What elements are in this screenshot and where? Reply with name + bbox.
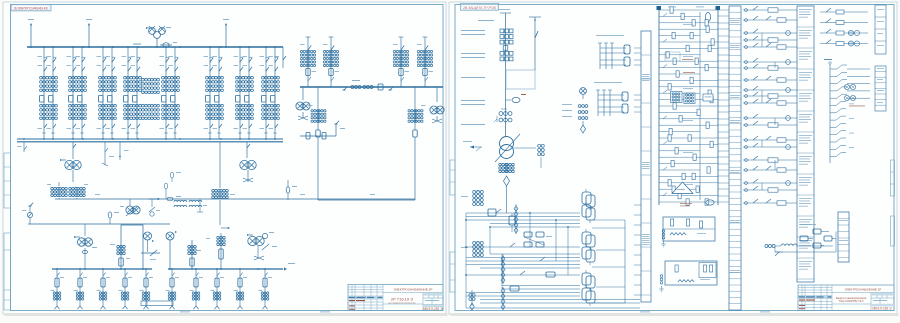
transformer riser bay T1 on bus 3	[307, 37, 309, 87]
right edge box RB2	[875, 66, 886, 111]
ladder rung 31	[659, 201, 718, 203]
contact rung K20	[743, 202, 797, 204]
ladder rung 12	[659, 79, 718, 81]
VT chain with star point	[580, 88, 587, 95]
sheet 2 page	[449, 2, 897, 314]
transformer riser bay T4 on bus 3	[424, 37, 426, 87]
ladder rung 17	[659, 111, 700, 113]
AT jumper ovals above W1	[165, 189, 167, 199]
transformer loop P2	[170, 240, 192, 269]
riser to line L3 with up arrow	[225, 25, 227, 47]
ladder relay grid block KA1	[671, 92, 683, 103]
signal cascade rail	[829, 64, 831, 163]
DC ladder left rail	[658, 8, 660, 205]
transformer loop P1	[121, 225, 143, 269]
bus 2 junction dots	[23, 138, 25, 140]
generator cluster G3 below bus 3 left	[302, 87, 304, 100]
test plug TB3	[582, 232, 591, 244]
bus1 end drop feeder	[282, 47, 284, 68]
generator cluster G4 below bus 3 right	[436, 87, 438, 102]
feeder bay Q5 on bus 1	[165, 47, 167, 139]
ladder rung 20	[659, 131, 700, 133]
signal device cluster SC1	[781, 244, 797, 246]
test plug TB1	[582, 192, 591, 204]
ladder rung 21	[659, 137, 718, 139]
ladder rung 10	[659, 67, 718, 69]
generator cluster G1 below bus 2	[72, 142, 74, 159]
BK1 CT chain and ground	[662, 230, 665, 233]
earthing switch on W3	[27, 212, 32, 217]
ladder rung 7	[659, 47, 718, 49]
terminal strip XT5	[838, 212, 849, 262]
signal rung S4	[820, 43, 868, 45]
windings below G2	[212, 189, 215, 192]
outgoing feeder F3 on bus 4	[102, 269, 104, 306]
annotation text column	[461, 29, 485, 32]
ladder rung 1	[659, 9, 718, 11]
ladder rung 16	[659, 105, 718, 107]
BK2 CT chain and ground	[660, 275, 663, 278]
ladder rung 6	[659, 41, 718, 43]
sheet 1 top-left stamp	[11, 4, 51, 11]
sheet 1 drawing frame	[11, 5, 444, 311]
contact rung K9	[743, 89, 797, 91]
riser to line L2 with up arrow	[88, 25, 90, 47]
ladder mid rail	[699, 12, 701, 200]
long tie loop wire	[318, 199, 415, 201]
triangle red note	[680, 202, 692, 205]
test plug TB4	[582, 247, 591, 259]
contact rung K18	[743, 182, 797, 184]
CT secondary coil block A	[473, 191, 476, 194]
aux drop with switch below bus 2	[104, 142, 106, 165]
svg-text:ЭЛЕКТРОСНАБЖЕНИЕ 2Р: ЭЛЕКТРОСНАБЖЕНИЕ 2Р	[394, 288, 433, 292]
ladder rung 5	[659, 35, 700, 37]
sheet 1 bottom frame strip marks	[180, 311, 190, 314]
auxiliary generator GB2	[144, 232, 152, 240]
ladder relay grid block KA2	[684, 93, 695, 104]
contact rung K13	[743, 124, 797, 126]
plug column collector	[624, 220, 626, 303]
svg-text:2В ЗАЩИТА ТР-РОВ: 2В ЗАЩИТА ТР-РОВ	[463, 6, 496, 10]
CT block group TA1	[500, 29, 504, 33]
HV supply line	[505, 13, 507, 136]
ladder rung 11	[659, 73, 700, 75]
ladder rung 2	[659, 15, 700, 17]
mesh vertical collectors	[466, 213, 568, 308]
bus 3 (35kV)	[300, 86, 443, 88]
ladder rung 9	[659, 60, 718, 62]
svg-text:2Р 716.19 Э: 2Р 716.19 Э	[391, 296, 413, 301]
breaker element on W3	[109, 218, 111, 224]
tie reactor on bus 3	[351, 86, 354, 89]
coil oval right of triangle	[706, 200, 714, 205]
aux drop 2 below bus 2	[119, 142, 121, 160]
ladder relay label box	[703, 94, 713, 101]
synchronous condenser cluster	[248, 236, 257, 245]
test plug TB6	[582, 288, 591, 300]
feeder bay Q2 on bus 1	[72, 47, 74, 139]
ladder rung 30	[659, 195, 718, 197]
outgoing feeder F7 on bus 4	[195, 269, 197, 306]
fuse diamond chain FD1	[515, 204, 517, 234]
contact rung K2	[743, 19, 797, 21]
generator pair GB1	[84, 224, 86, 236]
ladder rung 23	[659, 150, 700, 152]
mid wire stub down from W1	[199, 199, 201, 212]
relay cluster RC1	[524, 232, 532, 237]
transformer riser bay T2 on bus 3	[330, 37, 332, 87]
fuse on tie loop	[286, 187, 290, 193]
feeder arrow left of T1	[470, 146, 482, 148]
bus 1 junction dots	[30, 46, 32, 48]
ladder rung 22	[659, 143, 718, 145]
power transformer T1	[500, 137, 514, 151]
contact rung K4	[743, 39, 797, 41]
mesh junction dots	[465, 219, 467, 221]
LV fuse FU1	[504, 176, 510, 186]
W1 wire labels	[60, 193, 65, 196]
contact rung K6	[743, 61, 797, 63]
ladder rung 15	[659, 99, 718, 101]
contact rung K5	[743, 46, 797, 48]
bus 4 junction dots	[56, 268, 58, 270]
cascade lamp pairs	[844, 84, 849, 89]
VT chain labels	[562, 103, 572, 106]
ladder rung 8	[659, 54, 700, 56]
contact rung K8	[743, 79, 797, 81]
CT secondary chain C	[471, 290, 473, 306]
right edge box RB1	[875, 5, 886, 54]
svg-text:для завершения выполнения: для завершения выполнения	[388, 302, 415, 304]
outgoing feeder F6 on bus 4	[171, 269, 173, 306]
ladder rung 28	[659, 182, 718, 184]
ladder rung 14	[659, 92, 700, 94]
bus 1 label 10kV	[133, 44, 141, 45]
boxed relay circuit BK1	[663, 217, 715, 241]
sheet 2 title block	[798, 285, 894, 311]
svg-text:ЭЛЕКТРОСНАБЖЕНИЕ 2Р: ЭЛЕКТРОСНАБЖЕНИЕ 2Р	[845, 288, 881, 292]
outgoing feeder F5 on bus 4	[145, 269, 147, 306]
arrow tap on wire W1	[148, 198, 160, 200]
bus 4 right segment	[168, 268, 283, 270]
tertiary winding tap	[514, 147, 537, 149]
cascade branch contacts	[830, 65, 870, 157]
LV winding stack under T1	[499, 163, 502, 166]
ladder rung 4	[659, 28, 718, 30]
XT1 wire stubs	[634, 48, 641, 295]
svg-text:МКЭ.9-292 Э: МКЭ.9-292 Э	[423, 307, 443, 311]
ladder rung 13	[659, 86, 718, 88]
sheet 2 bottom frame marks	[640, 311, 650, 314]
coil windings row W2	[174, 200, 187, 202]
outgoing feeder F1 on bus 4	[56, 269, 58, 306]
terminal strip XT2	[729, 6, 741, 310]
ladder terminal dots	[657, 6, 662, 10]
bus 2 (double busbar)	[17, 138, 283, 140]
instrument group PA1	[596, 34, 624, 37]
signal rung S2	[820, 22, 868, 24]
fuse diamond chain FD2	[502, 254, 504, 284]
contact rung K3	[743, 32, 797, 34]
contact rung K17	[743, 169, 797, 171]
sheet 1 title block	[348, 285, 443, 311]
fuse diamond chain FD3	[502, 287, 504, 309]
contact rung K10	[743, 95, 797, 97]
svg-text:ТЭЦ 4-2000/ТВ2 ТЗ-3: ТЭЦ 4-2000/ТВ2 ТЗ-3	[839, 300, 864, 303]
bus 1 (10kV section)	[27, 46, 283, 48]
signal rung S1	[820, 11, 868, 13]
test plug TB5	[582, 273, 591, 285]
instrument group PA2	[594, 81, 622, 84]
ladder K vertical jogs	[762, 33, 775, 190]
mesh horizontal wires	[466, 213, 640, 308]
terminal strip XT3 (descriptions)	[797, 6, 814, 282]
bottom label box	[141, 301, 173, 306]
ladder rung 26	[659, 169, 700, 171]
outgoing feeder F8 on bus 4	[216, 269, 218, 306]
XT2 wire stubs	[718, 10, 729, 202]
reserve riser R1	[220, 233, 222, 269]
generator cluster G2 below bus 2	[246, 142, 248, 158]
bus 4 left segment	[52, 268, 152, 270]
ladder rung 25	[659, 163, 718, 165]
ladder rung 19	[659, 124, 718, 126]
CT block group TA2	[500, 51, 504, 55]
outgoing feeder F10 on bus 4	[264, 269, 266, 306]
right edge form boxes sheet 2	[891, 160, 895, 246]
test plug TB2	[582, 205, 591, 217]
bus section jumper right of bus 2	[300, 135, 336, 137]
extra reactor windings middle bay	[142, 78, 145, 81]
ladder rung 18	[659, 118, 718, 120]
interposing square	[503, 46, 508, 51]
contact rung K11	[743, 102, 797, 104]
aux contacts on mesh	[496, 209, 545, 275]
sheet 1 page	[3, 2, 446, 314]
lower cross wire W3	[28, 223, 170, 225]
ladder rung 27	[659, 175, 718, 177]
feeder bay Q1 on bus 1	[43, 47, 45, 139]
cascade red note	[849, 105, 865, 108]
feeder bay Q3 on bus 1	[102, 47, 104, 139]
contact rung K12	[743, 117, 797, 119]
feeder bay Q6 on bus 1	[209, 47, 211, 139]
breaker coil YAT	[509, 216, 515, 225]
CT winding group TA3	[499, 112, 503, 116]
ladder rung 24	[659, 156, 718, 158]
small relay box on mesh	[488, 209, 496, 216]
bypass line with disconnector	[534, 17, 536, 70]
main cross wire W1	[55, 198, 415, 200]
gas relay triangle	[672, 182, 693, 194]
left end disconnect on bus 2	[23, 142, 25, 152]
outgoing feeder F2 on bus 4	[79, 269, 81, 306]
ladder dashed subgroup box	[665, 52, 680, 61]
outgoing feeder F9 on bus 4	[239, 269, 241, 306]
TA1 companion switch	[151, 199, 153, 207]
contact rung K15	[743, 146, 797, 148]
sheet 1 left-edge form boxes	[4, 153, 11, 310]
cascade branch labels	[849, 103, 854, 106]
outgoing feeder F4 on bus 4	[124, 269, 126, 306]
CT secondary coil block B	[473, 242, 476, 245]
feeder bay Q7 on bus 1	[239, 47, 241, 139]
terminal strip XT1	[641, 31, 651, 302]
svg-text:МКЭ.9-292 Э: МКЭ.9-292 Э	[872, 307, 892, 311]
bus coupler reactor on bus 1	[160, 44, 172, 46]
sheet 2 left-edge form boxes	[450, 160, 455, 292]
breaker zone box	[506, 70, 535, 89]
contact rung K7	[743, 67, 797, 69]
ladder rung 29	[659, 188, 700, 190]
contact rung K16	[743, 159, 797, 161]
sheet 2 drawing frame	[455, 5, 894, 311]
signal rung S3	[820, 32, 868, 34]
ladder coil oval top right	[705, 13, 710, 22]
station transformer windings below G1	[51, 187, 54, 190]
circuit breaker Q1 stub	[506, 99, 512, 101]
unit transformer pair TA1	[129, 199, 131, 206]
boxed relay circuit BK2	[665, 261, 717, 285]
contact rung K14	[743, 139, 797, 141]
transformer windings below bus 3 right	[414, 87, 416, 130]
feeder bay Q4 on bus 1	[127, 47, 129, 139]
callout text top	[478, 19, 494, 22]
svg-text:2Б ЭЛЕКТРОСНАБЖЕНИЕ: 2Б ЭЛЕКТРОСНАБЖЕНИЕ	[14, 5, 49, 10]
transformer riser bay T3 on bus 3	[400, 37, 402, 87]
riser to line L1 with up arrow	[30, 25, 32, 47]
contact rung K19	[743, 189, 797, 191]
ladder red labels	[682, 58, 693, 61]
feeder bay Q8 on bus 1	[265, 47, 267, 139]
surge arrester / VT cluster T0 on bus 1	[156, 38, 158, 47]
transformer windings below bus 3 left	[317, 87, 319, 130]
DC ladder right rail	[717, 8, 719, 205]
sheet 2 top-left stamp	[461, 3, 499, 10]
ladder rung 3	[659, 22, 718, 24]
contact rung K1	[743, 9, 797, 11]
